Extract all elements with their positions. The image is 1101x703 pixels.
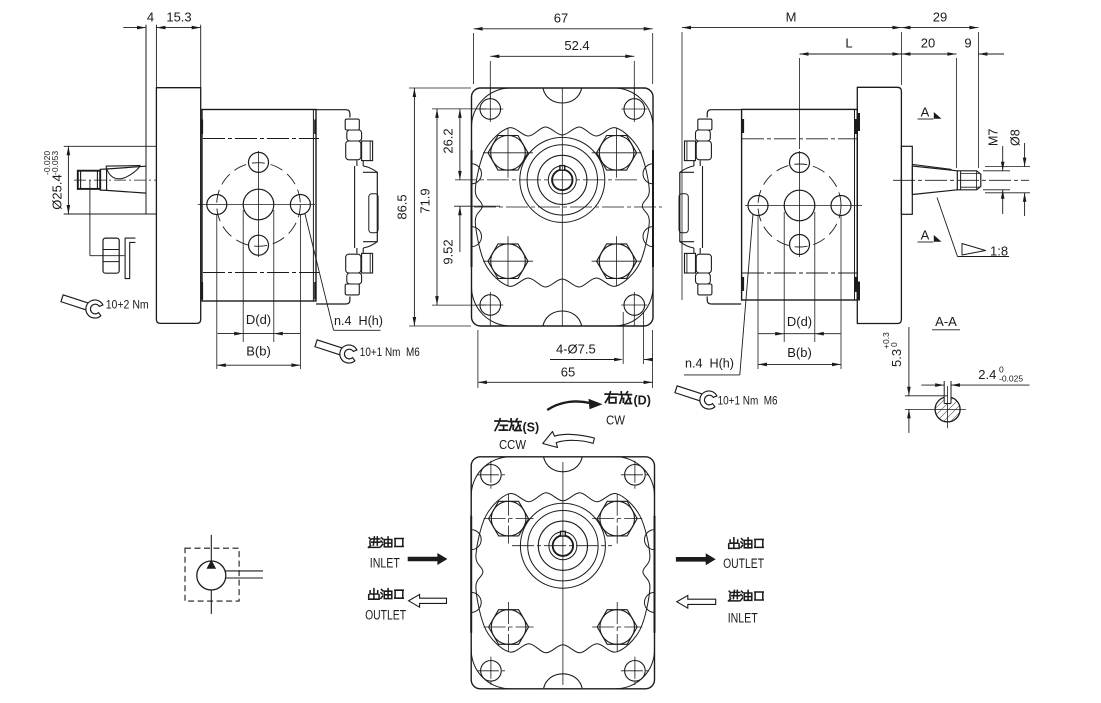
- svg-text:26.2: 26.2: [441, 128, 456, 153]
- svg-text:4-Ø7.5: 4-Ø7.5: [556, 342, 596, 357]
- svg-text:A: A: [921, 105, 930, 120]
- svg-text:L: L: [845, 36, 852, 51]
- svg-text:10+2 Nm: 10+2 Nm: [106, 298, 149, 312]
- svg-text:15.3: 15.3: [166, 10, 191, 25]
- svg-text:B(b): B(b): [246, 344, 271, 359]
- svg-text:0: 0: [889, 342, 899, 347]
- svg-text:(D): (D): [634, 394, 651, 408]
- svg-text:-0.053: -0.053: [50, 151, 60, 175]
- svg-text:9.52: 9.52: [441, 239, 456, 264]
- svg-text:M7: M7: [987, 129, 1001, 146]
- svg-text:n.4 H(h): n.4 H(h): [334, 313, 383, 328]
- svg-text:Ø25.4: Ø25.4: [50, 174, 65, 209]
- svg-text:52.4: 52.4: [564, 38, 589, 53]
- svg-text:67: 67: [554, 11, 568, 26]
- svg-text:n.4 H(h): n.4 H(h): [685, 356, 734, 371]
- svg-text:INLET: INLET: [728, 611, 758, 626]
- svg-text:M: M: [786, 10, 797, 25]
- svg-text:OUTLET: OUTLET: [365, 608, 406, 623]
- svg-text:A: A: [921, 228, 930, 243]
- svg-text:20: 20: [921, 36, 935, 51]
- svg-text:9: 9: [964, 36, 971, 51]
- svg-text:CW: CW: [606, 414, 625, 428]
- svg-text:OUTLET: OUTLET: [723, 556, 764, 571]
- svg-text:86.5: 86.5: [395, 194, 410, 219]
- svg-text:29: 29: [933, 10, 947, 25]
- svg-text:65: 65: [561, 365, 575, 380]
- svg-text:INLET: INLET: [370, 556, 400, 571]
- svg-text:1:8: 1:8: [990, 244, 1008, 259]
- svg-text:Ø8: Ø8: [1009, 129, 1023, 146]
- svg-text:2.4: 2.4: [978, 367, 996, 382]
- svg-text:A-A: A-A: [935, 314, 957, 329]
- svg-text:B(b): B(b): [787, 345, 812, 360]
- svg-text:4: 4: [147, 10, 154, 25]
- svg-text:71.9: 71.9: [418, 188, 433, 213]
- svg-text:D(d): D(d): [246, 312, 271, 327]
- svg-text:-0.025: -0.025: [999, 374, 1023, 384]
- svg-text:(S): (S): [523, 421, 540, 435]
- svg-text:10+1 Nm M6: 10+1 Nm M6: [360, 345, 420, 359]
- svg-text:CCW: CCW: [499, 438, 526, 452]
- svg-text:D(d): D(d): [787, 314, 812, 329]
- svg-text:5.3: 5.3: [889, 349, 904, 367]
- svg-text:10+1 Nm M6: 10+1 Nm M6: [718, 394, 778, 408]
